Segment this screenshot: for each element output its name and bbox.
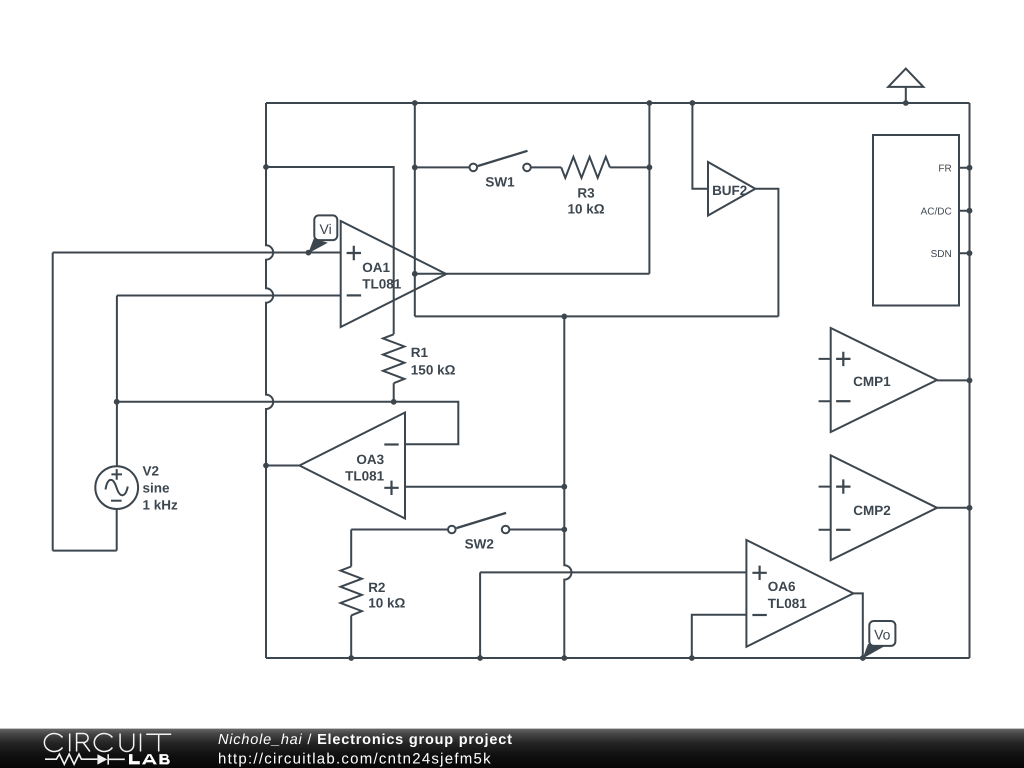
wire SW2 to x564 — [509, 529, 564, 531]
CMP2 plus minus — [836, 479, 850, 493]
CircuitLab logo wordmark LAB (hand-drawn) — [129, 754, 170, 764]
wire R3 to x650 — [610, 166, 650, 168]
svg-text:SDN: SDN — [931, 249, 952, 260]
logo resistor-diode glyph — [45, 754, 125, 765]
op-amp OA3 (mirrored) — [300, 413, 406, 519]
wire vertical x415 feedback — [414, 103, 416, 316]
svg-text:10 kΩ: 10 kΩ — [368, 595, 405, 610]
wire R2/SW2 left — [351, 529, 448, 531]
svg-text:SW2: SW2 — [465, 537, 494, 552]
comparator CMP1 — [831, 328, 937, 432]
wire horizontal y316 — [415, 315, 779, 317]
wire y572 to OA6 plus — [480, 571, 746, 573]
buffer BUF2 input wire — [692, 103, 708, 189]
svg-text:OA3: OA3 — [356, 452, 384, 467]
svg-text:AC/DC: AC/DC — [921, 206, 952, 217]
resistor R3 — [561, 157, 610, 178]
wire to SW1 — [415, 166, 470, 168]
power VCC symbol — [905, 87, 907, 103]
wire y402 V2 to OA3 minus — [117, 402, 459, 445]
svg-text:R3: R3 — [577, 185, 595, 200]
svg-text:OA1: OA1 — [362, 260, 390, 275]
IC pin labels — [921, 163, 952, 259]
OA6 plus minus — [752, 566, 766, 580]
wire OA1 plus input from far left — [53, 252, 341, 254]
CMP1 plus minus — [836, 352, 850, 366]
svg-text:R2: R2 — [368, 580, 385, 595]
wire CMP1 output — [937, 379, 970, 381]
svg-text:Nichole_hai / Electronics grou: Nichole_hai / Electronics group project — [218, 732, 513, 748]
svg-text:sine: sine — [143, 481, 171, 496]
svg-text:Vo: Vo — [874, 627, 891, 643]
svg-text:V2: V2 — [143, 464, 160, 479]
node Vo flag — [863, 621, 896, 659]
svg-text:R1: R1 — [411, 345, 429, 360]
IC box U1 — [873, 135, 959, 306]
wire CMP2 output — [937, 507, 970, 509]
wire vertical x564 (with hop) — [564, 316, 571, 658]
svg-text:SW1: SW1 — [485, 175, 515, 190]
wire CMP1 input stubs — [819, 359, 831, 401]
svg-text:TL081: TL081 — [362, 277, 402, 292]
svg-text:CMP2: CMP2 — [853, 503, 891, 518]
svg-text:Vi: Vi — [319, 221, 331, 237]
wire IC pin stubs FR AC/DC SDN — [959, 168, 969, 254]
wire OA6 minus feedback — [692, 615, 747, 658]
op-amp OA6 — [746, 540, 853, 647]
switch SW1 — [470, 151, 531, 171]
svg-text:FR: FR — [938, 163, 951, 174]
wire OA3 output — [266, 465, 300, 467]
switch SW2 — [448, 513, 509, 533]
op-amp polarity signs — [347, 246, 851, 615]
svg-text:TL081: TL081 — [345, 468, 385, 483]
wire BUF2 output — [755, 189, 778, 317]
wire right rail — [969, 103, 971, 658]
OA1 plus minus — [347, 246, 361, 260]
wire V2 bottom stub — [116, 509, 118, 551]
wire OA1 output — [415, 273, 650, 275]
comparator CMP2 — [831, 455, 937, 560]
wire net167 left — [266, 167, 394, 334]
wire R1 bottom lead — [393, 383, 395, 402]
wire x480 down — [479, 572, 481, 658]
footer bar — [0, 729, 1024, 768]
resistor R1 — [383, 334, 404, 383]
voltage source V2 — [95, 466, 138, 509]
wire top rail — [266, 102, 970, 104]
resistor R2 — [341, 567, 362, 616]
wire OA6 output — [853, 593, 862, 658]
wire left outer vertical — [52, 253, 54, 551]
wire V2 top stub — [116, 296, 118, 467]
wire OA3 plus input — [405, 486, 564, 488]
wire left rail (with crossover hops) — [266, 103, 273, 658]
OA3 minus plus — [384, 443, 398, 445]
wire OA1 minus input — [117, 295, 341, 297]
node Vi flag — [308, 215, 337, 253]
wire R2 top lead — [350, 530, 352, 567]
svg-text:1 kHz: 1 kHz — [143, 498, 179, 513]
wire vertical x650 — [648, 103, 650, 274]
svg-text:http://circuitlab.com/cntn24sj: http://circuitlab.com/cntn24sjefm5k — [218, 751, 492, 768]
svg-text:10 kΩ: 10 kΩ — [567, 201, 604, 216]
svg-text:BUF2: BUF2 — [712, 183, 747, 198]
wire SW1 to R3 — [531, 166, 561, 168]
op-amp OA1 — [341, 221, 447, 327]
svg-text:TL081: TL081 — [768, 596, 808, 611]
wire R2 bottom lead — [350, 615, 352, 658]
wire bottom rail — [266, 657, 970, 659]
buffer BUF2 — [708, 162, 755, 216]
wire V2 bottom link — [53, 550, 117, 552]
CircuitLab logo wordmark CIRCUIT (hand-drawn thin letters) — [44, 733, 171, 751]
svg-text:OA6: OA6 — [768, 579, 796, 594]
wire CMP2 input stubs — [819, 487, 831, 530]
svg-text:CMP1: CMP1 — [853, 374, 891, 389]
svg-text:150 kΩ: 150 kΩ — [411, 362, 456, 377]
